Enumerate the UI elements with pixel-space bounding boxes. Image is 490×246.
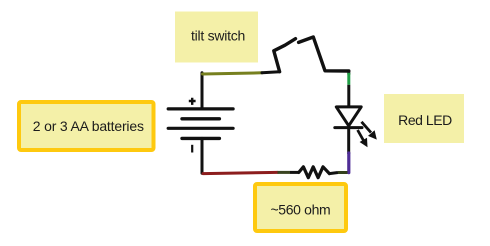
svg-text:~560 ohm: ~560 ohm [270, 201, 330, 217]
svg-text:tilt switch: tilt switch [191, 27, 245, 43]
battery B1: plate 4 short [182, 137, 219, 140]
wire: black down to LED [347, 85, 350, 107]
battery B1: - sign (vertical dash) [191, 145, 193, 153]
svg-text:2 or 3 AA batteries: 2 or 3 AA batteries [33, 118, 144, 134]
wire: top black segment into switch [262, 72, 280, 73]
battery B1: plate 3 long [168, 127, 233, 130]
LED light arrow 1 [362, 122, 377, 140]
wire: bottom black into resistor [290, 171, 299, 174]
wire: green segment [347, 73, 350, 85]
wire: bottom black after resistor [329, 173, 338, 174]
label box: 2 or 3 AA batteries [19, 102, 154, 150]
label box: tilt switch [175, 12, 258, 63]
wire: top olive segment (battery+ to switch) [203, 73, 263, 74]
battery B1: plate 2 short [182, 117, 219, 120]
label box: Red LED [384, 94, 464, 143]
LED light arrow 2 [358, 130, 368, 147]
wire: bottom dark green segment right [338, 171, 348, 174]
wire: battery bottom vertical [201, 138, 204, 173]
tilt switch symbol: left post and lever [274, 39, 296, 72]
wire: purple segment to bottom corner [347, 153, 350, 173]
wire: bottom dark red segment [203, 172, 278, 173]
svg-text:Red LED: Red LED [398, 112, 452, 128]
wire: bottom dark green segment left [278, 171, 291, 174]
resistor R1 (~560 ohm) zigzag [299, 167, 330, 178]
label box: ~560 ohm [255, 184, 346, 231]
battery B1: plate 1 long [168, 107, 233, 110]
battery B1: + sign [189, 98, 196, 105]
wire: LED cathode down [347, 128, 350, 154]
LED D1: triangle [336, 107, 361, 126]
tilt switch symbol: right contact [299, 37, 349, 71]
wire: battery top vertical [201, 73, 204, 109]
wire: right vertical black below switch [347, 71, 350, 74]
LED D1: cathode bar [335, 126, 362, 129]
